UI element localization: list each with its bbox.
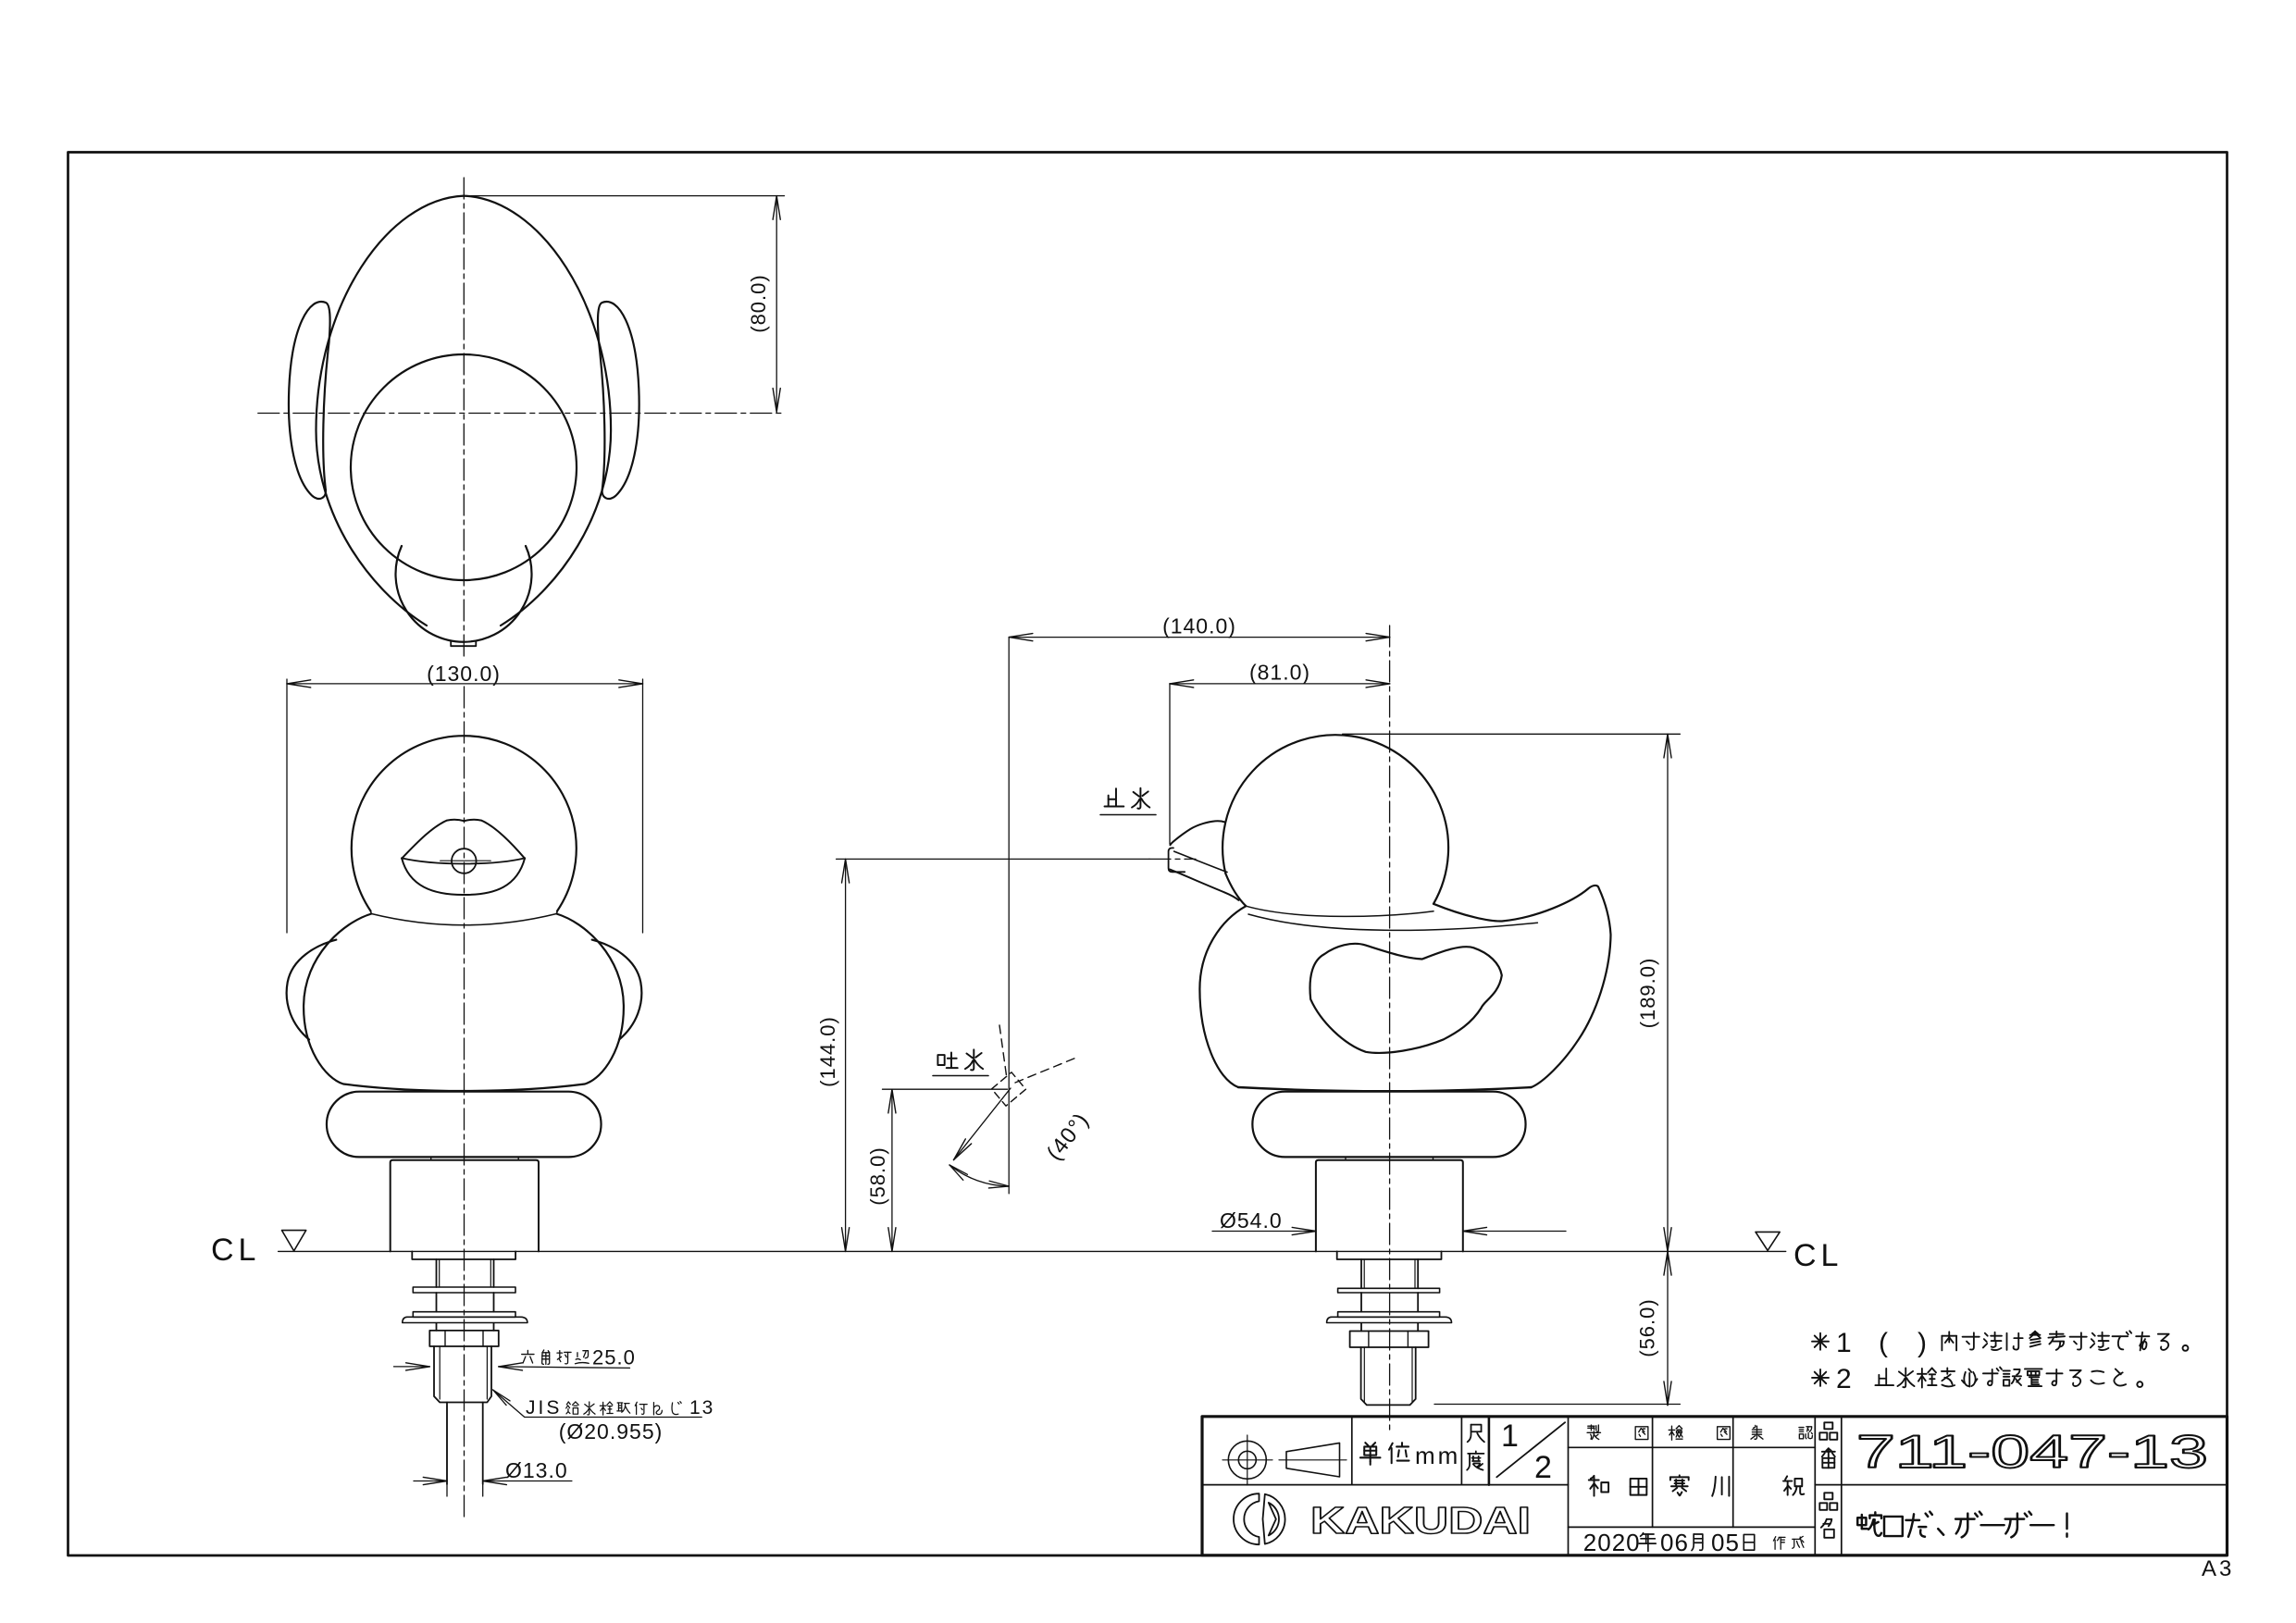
side view washer 2 bbox=[1338, 1312, 1440, 1318]
part number label bbox=[1819, 1422, 1837, 1440]
title block outer border bbox=[1202, 1417, 2228, 1555]
side view ring step bbox=[1346, 1157, 1433, 1159]
side view neck blend bbox=[1225, 873, 1246, 906]
front view shaft bbox=[436, 1259, 438, 1287]
svg-text:25.0: 25.0 bbox=[592, 1346, 636, 1369]
svg-text:2: 2 bbox=[1836, 1364, 1852, 1394]
front view neck seam bbox=[371, 911, 558, 925]
side view neck seam lower bbox=[1248, 914, 1537, 930]
spout axis dashes bbox=[999, 1025, 1007, 1079]
svg-text:05: 05 bbox=[1711, 1529, 1740, 1556]
svg-text:711-047-13: 711-047-13 bbox=[1856, 1426, 2208, 1478]
projection symbol cone bbox=[1286, 1443, 1340, 1477]
front view washer 2 bbox=[413, 1312, 515, 1318]
svg-text:(80.0): (80.0) bbox=[747, 274, 770, 332]
front view escutcheon dish bbox=[403, 1317, 527, 1322]
front view left wing bbox=[287, 940, 337, 1040]
dimension (56.0) bbox=[1434, 1404, 1680, 1406]
front view right wing bbox=[592, 940, 642, 1040]
spout label bbox=[937, 1052, 957, 1068]
dimension (130.0) bbox=[286, 679, 288, 933]
svg-text:(144.0): (144.0) bbox=[816, 1016, 839, 1087]
side view neck seam upper bbox=[1246, 906, 1433, 916]
CL triangle left bbox=[282, 1231, 306, 1251]
svg-text:Ø54.0: Ø54.0 bbox=[1220, 1208, 1283, 1233]
scale label bbox=[1468, 1425, 1484, 1443]
side view thread bbox=[1361, 1347, 1416, 1405]
CL triangle right bbox=[1756, 1232, 1780, 1250]
svg-text:JIS: JIS bbox=[526, 1397, 562, 1419]
svg-text:KAKUDAI: KAKUDAI bbox=[1310, 1499, 1531, 1542]
front view thread bbox=[434, 1346, 491, 1403]
top view vertical centerline bbox=[463, 178, 465, 659]
part name label bbox=[1819, 1493, 1837, 1510]
unit label bbox=[1360, 1443, 1381, 1465]
front view washer 1 bbox=[413, 1287, 515, 1293]
svg-text:(81.0): (81.0) bbox=[1249, 661, 1310, 685]
front view beak upper lip bbox=[402, 820, 525, 859]
front view base ring bbox=[327, 1092, 602, 1158]
side view base ring bbox=[1252, 1092, 1525, 1158]
top view head circle bbox=[351, 354, 577, 580]
front view vertical centerline bbox=[464, 687, 465, 1518]
dimension pipe dia 13.0 bbox=[446, 1406, 448, 1496]
dimension (81.0) bbox=[1169, 684, 1171, 844]
top view right wing bbox=[598, 302, 639, 499]
dimension hex across flats 25.0 bbox=[394, 1366, 430, 1368]
svg-text:(Ø20.955): (Ø20.955) bbox=[559, 1419, 664, 1443]
front view outlet cross line bbox=[441, 860, 491, 861]
top view beak tip tab bbox=[451, 641, 476, 647]
svg-text:2020: 2020 bbox=[1583, 1529, 1641, 1556]
side view beak upper line bbox=[1171, 821, 1225, 845]
svg-text:(: ( bbox=[1879, 1328, 1888, 1358]
front view mount flange bbox=[412, 1251, 515, 1259]
svg-text:): ) bbox=[1917, 1328, 1927, 1358]
svg-text:1: 1 bbox=[1836, 1328, 1852, 1358]
svg-text:1: 1 bbox=[1501, 1419, 1519, 1454]
dimension (80.0) bbox=[471, 195, 785, 197]
top view horizontal centerline bbox=[258, 413, 785, 415]
part name value bbox=[1857, 1512, 1881, 1535]
dimension (58.0) bbox=[883, 1088, 1008, 1090]
top view left wing bbox=[289, 302, 330, 499]
svg-text:(56.0): (56.0) bbox=[1636, 1298, 1659, 1357]
note 2 bbox=[1812, 1369, 1829, 1386]
side view wing bbox=[1310, 944, 1502, 1053]
front view hex flange block bbox=[391, 1160, 539, 1252]
top view body (egg outline) bbox=[316, 196, 612, 626]
spout 40 deg arc bbox=[949, 1165, 1009, 1186]
svg-text:CL: CL bbox=[211, 1233, 260, 1268]
svg-text:(130.0): (130.0) bbox=[427, 662, 501, 686]
stop-water level line bbox=[837, 858, 1149, 860]
front view supply pipe bbox=[446, 1403, 448, 1485]
side view body bottom bbox=[1238, 1087, 1532, 1091]
spout outlet dashed box bbox=[992, 1072, 1026, 1106]
svg-text:(58.0): (58.0) bbox=[866, 1146, 889, 1205]
svg-text:mm: mm bbox=[1415, 1442, 1460, 1469]
names bbox=[1589, 1476, 1608, 1496]
svg-text:2: 2 bbox=[1534, 1450, 1552, 1485]
side view mount flange bbox=[1337, 1251, 1442, 1259]
dimension (144.0) bbox=[845, 859, 847, 1251]
svg-text:Ø13.0: Ø13.0 bbox=[505, 1458, 568, 1482]
side view mouth line bbox=[1174, 851, 1227, 872]
side view washer 1 bbox=[1338, 1288, 1440, 1293]
KAKUDAI logo mark bbox=[1234, 1493, 1260, 1544]
side view beak lower line bbox=[1170, 870, 1239, 900]
side view vertical centerline bbox=[1389, 626, 1391, 1430]
front view beak lower lip bbox=[402, 858, 525, 895]
front view outlet circle bbox=[452, 849, 477, 873]
CL datum line bbox=[279, 1250, 1786, 1252]
svg-text:(189.0): (189.0) bbox=[1636, 958, 1659, 1029]
side view escutcheon dish bbox=[1327, 1317, 1452, 1322]
dimension (189.0) bbox=[1343, 733, 1681, 735]
side view shaft bbox=[1360, 1259, 1362, 1288]
spout 40 deg direction line bbox=[954, 1088, 1011, 1160]
drafted/checked/approved labels bbox=[1587, 1425, 1600, 1439]
side view head arc bbox=[1222, 735, 1448, 904]
side view beak valve square bbox=[1169, 848, 1185, 872]
front view body outline bbox=[304, 914, 624, 1092]
projection symbol circle bbox=[1228, 1441, 1266, 1479]
top view beak arc bbox=[396, 546, 532, 642]
side view nut bbox=[1350, 1332, 1429, 1348]
label JIS mounting thread leader bbox=[493, 1390, 702, 1418]
side view hex flange block bbox=[1316, 1160, 1463, 1252]
front view nut bbox=[429, 1331, 499, 1346]
stop-water label bbox=[1105, 788, 1124, 806]
note 1 bbox=[1812, 1333, 1829, 1350]
svg-text:13: 13 bbox=[689, 1397, 714, 1419]
side view chest outline bbox=[1199, 906, 1246, 1087]
svg-text:A3: A3 bbox=[2202, 1556, 2234, 1581]
front view ring step bbox=[431, 1157, 519, 1159]
dimension (140.0) bbox=[1008, 638, 1010, 1194]
svg-text:06: 06 bbox=[1660, 1529, 1689, 1556]
title block vertical dividers row1 bbox=[1351, 1417, 1353, 1485]
title block horizontal dividers bbox=[1202, 1484, 1569, 1486]
front view head arc bbox=[352, 736, 577, 911]
front view mouth line bbox=[402, 858, 525, 863]
svg-text:CL: CL bbox=[1793, 1238, 1843, 1273]
svg-text:(140.0): (140.0) bbox=[1162, 614, 1236, 638]
side view back and tail bbox=[1433, 886, 1611, 1087]
